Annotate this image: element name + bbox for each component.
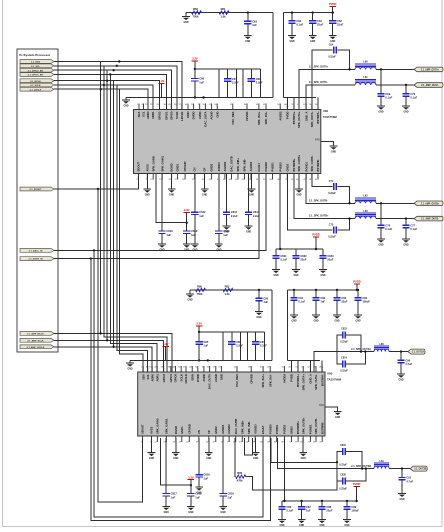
- wire pin to ground: [298, 174, 300, 190]
- capacitor C813 snubber: [337, 335, 343, 352]
- svg-text:2.1_AMP_OUTB+: 2.1_AMP_OUTB+: [421, 202, 440, 205]
- svg-text:PVDD: PVDD: [312, 233, 320, 237]
- svg-text:C621: C621: [280, 254, 287, 258]
- op-amp U80 amplifier IC body: [138, 372, 325, 436]
- ground: [299, 452, 307, 454]
- svg-text:CPGND: CPGND: [187, 424, 191, 434]
- capacitor C60: [291, 11, 293, 13]
- svg-text:0.1uF: 0.1uF: [298, 300, 305, 304]
- svg-text:BSTRPB+: BSTRPB+: [292, 158, 296, 171]
- capacitor C76: [380, 203, 382, 225]
- svg-text:0.22uF: 0.22uF: [328, 236, 336, 239]
- ground: [329, 35, 337, 37]
- capacitor C81: [293, 289, 295, 291]
- svg-text:GND: GND: [216, 249, 221, 251]
- wire 2.1_AMP_SCLK: [54, 339, 107, 341]
- svg-text:1uF: 1uF: [204, 477, 209, 481]
- capacitor C88: [321, 500, 323, 502]
- svg-text:2.1_MCLK: 2.1_MCLK: [30, 81, 41, 83]
- U80 pin stubs bottom: [142, 436, 144, 442]
- wire 2.1_AMP_MCLK: [54, 332, 101, 334]
- svg-text:GND: GND: [221, 512, 226, 514]
- resistor R61: [219, 11, 229, 14]
- wire pins to PVDD rail: [286, 98, 288, 110]
- wire DVDD rail U80: [130, 359, 272, 361]
- capacitor C67: [227, 69, 229, 79]
- port tag 2.1_AMP_OUTA-: [414, 83, 443, 88]
- svg-text:GND: GND: [378, 111, 383, 113]
- svg-text:2.1_AMP_MCLK: 2.1_AMP_MCLK: [27, 333, 44, 336]
- wire L81 out: [389, 468, 410, 470]
- svg-text:C66: C66: [199, 77, 204, 81]
- svg-text:GPIO1: GPIO1: [169, 374, 173, 383]
- svg-text:3.3V: 3.3V: [188, 475, 194, 479]
- svg-text:2.1_SPK_OUT2B: 2.1_SPK_OUT2B: [351, 465, 371, 468]
- svg-text:22uF: 22uF: [337, 23, 343, 27]
- capacitor C84: [357, 289, 359, 291]
- svg-text:SDIN: SDIN: [186, 111, 190, 118]
- ground: [172, 452, 180, 454]
- svg-text:C86: C86: [286, 505, 291, 509]
- svg-text:GND: GND: [149, 458, 154, 460]
- svg-text:GND: GND: [344, 525, 349, 527]
- svg-text:GND: GND: [319, 525, 324, 527]
- svg-text:GND: GND: [398, 379, 403, 381]
- svg-text:GND: GND: [355, 320, 360, 322]
- svg-text:GND: GND: [299, 525, 304, 527]
- svg-text:FAULT: FAULT: [261, 425, 265, 434]
- wire pin to ground: [146, 174, 148, 190]
- svg-text:1uF: 1uF: [228, 495, 233, 499]
- svg-text:GND: GND: [164, 512, 169, 514]
- svg-text:2.2uF: 2.2uF: [232, 81, 239, 85]
- svg-text:AVSS: AVSS: [150, 427, 154, 434]
- wire PVDD feed: [283, 438, 285, 501]
- svg-text:AVSS: AVSS: [145, 164, 149, 171]
- wire bus 2.1_GPIO1_INT to U80: [110, 75, 157, 373]
- wire pin to ground: [251, 174, 253, 190]
- svg-text:DVDD: DVDD: [192, 111, 196, 119]
- svg-text:SCL: SCL: [142, 111, 146, 117]
- wire L63 out: [376, 218, 414, 220]
- svg-text:OSC_RES: OSC_RES: [235, 374, 239, 387]
- ground rail left: [125, 98, 127, 101]
- ground: [201, 188, 209, 190]
- svg-text:PGND1: PGND1: [304, 162, 308, 172]
- ground: [318, 519, 326, 521]
- capacitor C818: [187, 493, 194, 495]
- svg-text:GND: GND: [289, 41, 294, 43]
- capacitor C90: [400, 352, 402, 361]
- svg-text:4.7uF: 4.7uF: [406, 479, 413, 483]
- svg-text:SPK_INB-: SPK_INB-: [247, 421, 251, 434]
- svg-text:SPK_OUTA-: SPK_OUTA-: [310, 111, 314, 127]
- wire to DVDD rail: [272, 13, 274, 98]
- ground: [312, 314, 320, 316]
- wire L61 out: [376, 84, 414, 86]
- wire PVDD mid rail: [276, 248, 323, 250]
- wire loop2 left: [242, 69, 244, 98]
- wire SPK_OUT2B upper: [271, 438, 337, 462]
- ground: [158, 243, 166, 245]
- svg-text:0.22uF: 0.22uF: [340, 370, 348, 373]
- svg-text:PAD: PAD: [319, 404, 324, 407]
- capacitor C83: [336, 289, 338, 291]
- port tag 2.1_OUT2A: [408, 349, 425, 354]
- capacitor C619: [183, 230, 190, 232]
- svg-text:PVDD: PVDD: [285, 111, 289, 119]
- ground: [248, 188, 256, 190]
- wire bus 2.1_GPIO2_INT to U80: [107, 70, 163, 372]
- wire bus 2.1_LRCLK to U80: [119, 89, 143, 372]
- svg-text:C612: C612: [199, 210, 206, 214]
- wire loop1: [218, 69, 220, 98]
- junction 2.1_GPIO2_INT: [112, 69, 114, 71]
- svg-text:750k: 750k: [197, 292, 203, 296]
- ground: [292, 269, 300, 271]
- wire 2.1_GPIO1_INT to U60: [54, 75, 167, 110]
- svg-text:GND1: GND1: [176, 163, 180, 171]
- wire SPK_OUTA-: [306, 85, 355, 110]
- svg-text:GND: GND: [169, 194, 174, 196]
- svg-text:22uF: 22uF: [326, 509, 332, 513]
- resistor R85: [234, 438, 237, 477]
- svg-text:2.1_AMP_OUTB-: 2.1_AMP_OUTB-: [421, 218, 439, 221]
- svg-text:C815: C815: [340, 444, 346, 447]
- wire loop2 right U80: [264, 332, 266, 360]
- wire loop1 right: [236, 69, 238, 98]
- svg-text:GND3: GND3: [285, 163, 289, 171]
- svg-text:GND1: GND1: [180, 426, 184, 434]
- svg-text:CPGND: CPGND: [183, 162, 187, 172]
- svg-text:GND: GND: [403, 244, 408, 246]
- svg-text:2.1_AMP_LRCLK: 2.1_AMP_LRCLK: [27, 346, 45, 349]
- svg-text:SDA: SDA: [141, 374, 145, 380]
- svg-text:2.1_SPK_OUTB+: 2.1_SPK_OUTB+: [309, 215, 329, 218]
- svg-text:C818: C818: [195, 492, 202, 496]
- svg-text:1uF: 1uF: [199, 81, 204, 85]
- ground: [144, 188, 152, 190]
- svg-text:CPVDD: CPVDD: [249, 374, 253, 384]
- capacitor C612: [194, 174, 196, 213]
- capacitor C66: [194, 69, 196, 79]
- svg-text:GND: GND: [301, 458, 306, 460]
- svg-text:BSTRPA+: BSTRPA+: [292, 111, 296, 124]
- svg-text:1uF: 1uF: [195, 495, 200, 499]
- wire pin to ground: [204, 174, 206, 190]
- svg-text:C77: C77: [410, 223, 415, 227]
- svg-text:BSTRPA-: BSTRPA-: [320, 374, 324, 386]
- ground: [148, 452, 156, 454]
- capacitor C814 snubber: [337, 352, 343, 364]
- port tag 2.1_OUT2B: [410, 466, 427, 471]
- svg-text:PVDD: PVDD: [353, 280, 361, 284]
- port tag 2.1_AMP_LRCLK: [20, 345, 54, 349]
- svg-text:GND_A: GND_A: [304, 112, 308, 122]
- svg-text:R82: R82: [225, 284, 230, 288]
- ground: [205, 452, 213, 454]
- wire PVDD bottom rail: [282, 500, 357, 502]
- capacitor C91: [401, 469, 403, 478]
- svg-text:C813: C813: [341, 328, 347, 331]
- wire PVDD right rail U60: [284, 97, 317, 99]
- svg-text:1uF: 1uF: [263, 300, 268, 304]
- ground: [278, 519, 286, 521]
- wire 2.1_DACR_IN to U80: [91, 259, 270, 521]
- svg-text:C615: C615: [231, 210, 238, 214]
- svg-text:22uF: 22uF: [341, 300, 347, 304]
- svg-text:U80: U80: [327, 372, 333, 376]
- svg-text:1uF: 1uF: [171, 495, 176, 499]
- svg-text:GND: GND: [279, 525, 284, 527]
- svg-text:GPIO0: GPIO0: [169, 111, 173, 120]
- wire 2.1_SDOUT to U80: [98, 189, 143, 502]
- svg-text:R60: R60: [193, 7, 198, 11]
- svg-text:3.3V: 3.3V: [196, 322, 202, 326]
- svg-text:C814: C814: [341, 357, 347, 360]
- wire SPK_OUTA+: [299, 69, 355, 109]
- svg-text:C817: C817: [171, 492, 178, 496]
- capacitor C77: [405, 219, 407, 226]
- ground: [182, 16, 190, 18]
- capacitor C622: [295, 249, 297, 256]
- svg-text:GND: GND: [378, 244, 383, 246]
- svg-text:C76: C76: [385, 223, 390, 227]
- svg-text:GND: GND: [202, 194, 207, 196]
- svg-text:SPK_GAIN1: SPK_GAIN1: [160, 155, 164, 171]
- junction: [405, 84, 407, 86]
- svg-text:GND: GND: [335, 417, 340, 419]
- svg-text:GND2: GND2: [214, 426, 218, 434]
- svg-text:AVDD2: AVDD2: [283, 374, 287, 384]
- svg-text:SCLK: SCLK: [175, 112, 179, 120]
- svg-text:1.0k: 1.0k: [224, 292, 230, 296]
- svg-text:AGND2: AGND2: [227, 424, 231, 434]
- svg-text:C60: C60: [296, 19, 301, 23]
- ground: [295, 188, 303, 190]
- capacitor C75 snubber: [287, 174, 332, 231]
- svg-text:C89: C89: [351, 505, 356, 509]
- svg-text:L63: L63: [363, 210, 368, 213]
- svg-text:GND: GND: [293, 275, 298, 277]
- svg-text:C614: C614: [253, 210, 260, 214]
- svg-text:0.1uF: 0.1uF: [385, 227, 392, 231]
- svg-text:C63: C63: [252, 19, 257, 23]
- svg-text:C91: C91: [406, 475, 411, 479]
- ground: [377, 105, 385, 107]
- svg-text:100uF: 100uF: [362, 300, 370, 304]
- page frame: [2, 0, 4, 527]
- U60 pin stubs top: [138, 104, 140, 110]
- svg-text:BSTRPB-: BSTRPB-: [316, 159, 320, 171]
- capacitor C621: [275, 249, 277, 256]
- svg-text:1uF: 1uF: [306, 509, 311, 513]
- svg-text:SCL: SCL: [146, 374, 150, 380]
- capacitor C620: [218, 174, 220, 232]
- svg-text:CP: CP: [207, 430, 211, 434]
- svg-text:PVDD1: PVDD1: [271, 162, 275, 172]
- svg-text:AVDD2: AVDD2: [278, 111, 282, 121]
- svg-text:GND: GND: [246, 231, 251, 233]
- junction: [380, 202, 382, 204]
- wire 2.1_MCLK to U60: [54, 81, 160, 110]
- svg-text:ADR0: ADR0: [146, 111, 150, 119]
- svg-text:PVDD2: PVDD2: [278, 162, 282, 172]
- svg-text:SDA: SDA: [137, 111, 141, 117]
- svg-text:PVDD: PVDD: [353, 482, 361, 486]
- svg-text:SDOUT: SDOUT: [137, 162, 141, 172]
- ground: [187, 506, 195, 508]
- svg-text:C820: C820: [340, 473, 346, 476]
- svg-text:GND: GND: [310, 41, 315, 43]
- junction 2.1_SCL: [116, 65, 118, 67]
- ground: [298, 519, 306, 521]
- svg-text:C81: C81: [298, 296, 303, 300]
- capacitor C87: [300, 500, 302, 502]
- svg-text:SPK_OUTA+: SPK_OUTA+: [301, 374, 305, 391]
- svg-text:L81: L81: [379, 460, 384, 463]
- svg-text:470k: 470k: [237, 479, 243, 483]
- junction 2.1_GPIO1_INT: [109, 73, 111, 75]
- junction 2.1_DACR_IN: [90, 257, 92, 259]
- svg-text:1.0k: 1.0k: [220, 15, 226, 19]
- svg-text:PGND0: PGND0: [264, 162, 268, 172]
- svg-text:DAC_OUTB: DAC_OUTB: [234, 419, 238, 434]
- wire loop1 left U80: [222, 332, 224, 360]
- svg-text:2.1_SPK_OUTB-: 2.1_SPK_OUTB-: [309, 199, 328, 202]
- ground: [255, 311, 263, 313]
- svg-text:CP: CP: [203, 168, 207, 172]
- port tag 2.1_MCLK: [20, 79, 54, 83]
- svg-text:AGND3: AGND3: [249, 161, 253, 171]
- inductor L61: [355, 78, 376, 80]
- svg-text:SPK_GAIN1: SPK_GAIN1: [165, 418, 169, 434]
- svg-text:2.2uF: 2.2uF: [260, 344, 267, 348]
- svg-text:DAC_OUTA: DAC_OUTA: [208, 374, 212, 389]
- svg-text:SDIN: SDIN: [190, 374, 194, 381]
- svg-text:C70: C70: [410, 92, 415, 96]
- svg-text:GND: GND: [145, 194, 150, 196]
- inductor L63: [355, 212, 376, 214]
- svg-text:GPIO2: GPIO2: [158, 111, 162, 120]
- svg-text:0.1uF: 0.1uF: [286, 509, 293, 513]
- port tag 2.1_SCL: [20, 64, 54, 68]
- svg-text:SPK_OUTB-: SPK_OUTB-: [314, 418, 318, 434]
- ground: [402, 105, 410, 107]
- wire PVDD feed to U60: [283, 13, 285, 98]
- svg-text:BSTRPB+: BSTRPB+: [296, 421, 300, 434]
- svg-text:DGND: DGND: [174, 426, 178, 434]
- wire pin to ground: [208, 438, 210, 453]
- port tag 2.1_LRCLK: [20, 87, 54, 91]
- wire DVDD pullup rail U80: [190, 289, 272, 291]
- capacitor C70: [405, 85, 407, 94]
- svg-text:AGND3: AGND3: [253, 424, 257, 434]
- svg-text:C71: C71: [329, 180, 334, 183]
- port tag 2.1_AMP_OUTA+: [414, 67, 443, 72]
- svg-text:SPK_GAIN0: SPK_GAIN0: [156, 418, 160, 434]
- svg-text:GND: GND: [403, 111, 408, 113]
- svg-text:FAULT: FAULT: [257, 163, 261, 172]
- svg-text:2.1_OUT2A: 2.1_OUT2A: [412, 351, 424, 354]
- svg-text:CPVDD: CPVDD: [245, 112, 249, 122]
- svg-text:GND: GND: [184, 249, 189, 251]
- svg-text:3.3V: 3.3V: [192, 57, 198, 61]
- U80 pin stubs top: [142, 366, 144, 372]
- port tag 2.1_AMP_MCLK: [20, 332, 54, 336]
- ground: [183, 243, 191, 245]
- capacitor C61: [312, 11, 314, 13]
- junction 2.1_SDOUT: [97, 188, 99, 190]
- ground: [397, 373, 405, 375]
- junction 3.3V node U80: [198, 331, 200, 333]
- svg-text:PVDD1: PVDD1: [275, 424, 279, 434]
- svg-text:2.1_AMP_SCLK: 2.1_AMP_SCLK: [27, 339, 44, 342]
- capacitor C89: [346, 500, 348, 502]
- svg-text:2.1_AMP_OUTA-: 2.1_AMP_OUTA-: [421, 84, 439, 87]
- wire SPK_OUT2B: [277, 438, 374, 469]
- capacitor C614: [248, 174, 250, 213]
- wire SPK_OUTB+: [294, 174, 355, 219]
- wire pin to 3.3V node: [160, 438, 191, 485]
- capacitor C87: [255, 332, 257, 342]
- svg-text:C62: C62: [337, 19, 342, 23]
- capacitor C815 snubber: [337, 452, 343, 463]
- svg-text:0.22uF: 0.22uF: [328, 192, 336, 195]
- capacitor C820 snubber: [337, 462, 343, 481]
- ground: [245, 225, 253, 227]
- ground: [290, 314, 298, 316]
- ground: [272, 269, 280, 271]
- svg-text:DAC_OUTB: DAC_OUTB: [230, 156, 234, 171]
- svg-text:OSC_RES: OSC_RES: [231, 111, 235, 124]
- capacitor C64 snubber: [312, 50, 333, 110]
- wire 2.1_SCLK to U60: [54, 85, 153, 110]
- svg-text:C69: C69: [385, 92, 390, 96]
- ground PAD: [334, 411, 342, 413]
- svg-text:100uF: 100uF: [351, 509, 359, 513]
- wire PVDD rail U80: [288, 289, 357, 291]
- svg-text:GND: GND: [206, 458, 211, 460]
- svg-text:CN: CN: [193, 168, 197, 172]
- svg-text:GND: GND: [273, 275, 278, 277]
- svg-text:1uF: 1uF: [166, 233, 171, 237]
- port tag 2.1_SCLK: [20, 83, 54, 87]
- svg-text:0.22uF: 0.22uF: [340, 341, 348, 344]
- capacitor C62: [332, 11, 334, 13]
- capacitor C68: [250, 69, 252, 79]
- wire SPK_OUT2A: [314, 352, 374, 372]
- wire 3.3V node: [190, 480, 192, 494]
- svg-text:22uF: 22uF: [327, 258, 333, 262]
- svg-text:GND: GND: [331, 151, 336, 153]
- svg-text:0.22uF: 0.22uF: [339, 488, 347, 491]
- svg-text:C620: C620: [223, 229, 230, 233]
- svg-text:2.1_LRCLK: 2.1_LRCLK: [30, 89, 42, 91]
- ground: [215, 243, 223, 245]
- capacitor C69: [380, 69, 382, 94]
- svg-text:SPK_INA-: SPK_INA-: [268, 374, 272, 387]
- svg-text:1uF: 1uF: [191, 233, 196, 237]
- port tag 2.1_AMP_OUTB-: [414, 216, 443, 221]
- wire PVDD feed: [279, 174, 281, 250]
- svg-text:AVDD3: AVDD3: [217, 162, 221, 172]
- svg-text:750k: 750k: [193, 15, 199, 19]
- wire 2.1_DACL_IN to U60: [54, 174, 266, 251]
- ground: [343, 519, 351, 521]
- ground: [319, 269, 327, 271]
- svg-text:C80: C80: [263, 296, 268, 300]
